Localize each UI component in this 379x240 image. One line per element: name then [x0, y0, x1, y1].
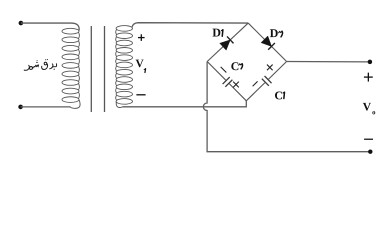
- wire secondary top to bridge top node: [132, 23, 248, 28]
- wire bridge arm top-right: [248, 23, 286, 61]
- label - secondary polarity: [136, 94, 145, 95]
- output terminal minus: [368, 150, 372, 154]
- C2 polarity minus: [221, 67, 227, 73]
- wire bridge left node down, hop over bottom wire, to negative rail: [203, 62, 370, 152]
- secondary bottom exit curl: [116, 102, 122, 108]
- wire top-left input to primary: [21, 23, 79, 30]
- label C1: [275, 91, 285, 99]
- label + output: [364, 76, 373, 77]
- diode D1: [220, 36, 234, 50]
- label + secondary polarity: [138, 37, 145, 38]
- capacitor C1: [246, 62, 286, 101]
- diode D2: [261, 36, 275, 50]
- C2 polarity plus: [233, 82, 239, 88]
- capacitor C2: [207, 62, 246, 101]
- label D1: [213, 29, 223, 37]
- C1 polarity plus: [267, 65, 273, 71]
- wire bridge right node to + output: [287, 61, 370, 63]
- label: برق شهر (mains power): [24, 59, 56, 70]
- wire bottom-left input to primary: [21, 106, 71, 108]
- label V1 secondary voltage: [136, 60, 146, 73]
- label - output: [364, 139, 373, 140]
- input terminal top-left: [19, 21, 24, 26]
- output terminal plus: [368, 60, 373, 65]
- label Vo output voltage: [363, 103, 375, 115]
- wire secondary bottom to bridge bottom node: [123, 101, 247, 107]
- C1 polarity minus: [253, 81, 258, 86]
- primary bottom exit curl: [70, 100, 80, 108]
- transformer core: [91, 26, 104, 112]
- label D2: [270, 29, 283, 37]
- input terminal bottom-left: [18, 105, 23, 110]
- wire bridge arm left-top: [207, 23, 248, 61]
- label C2: [231, 62, 242, 70]
- transformer secondary winding: [116, 26, 133, 105]
- transformer primary winding: [62, 28, 79, 102]
